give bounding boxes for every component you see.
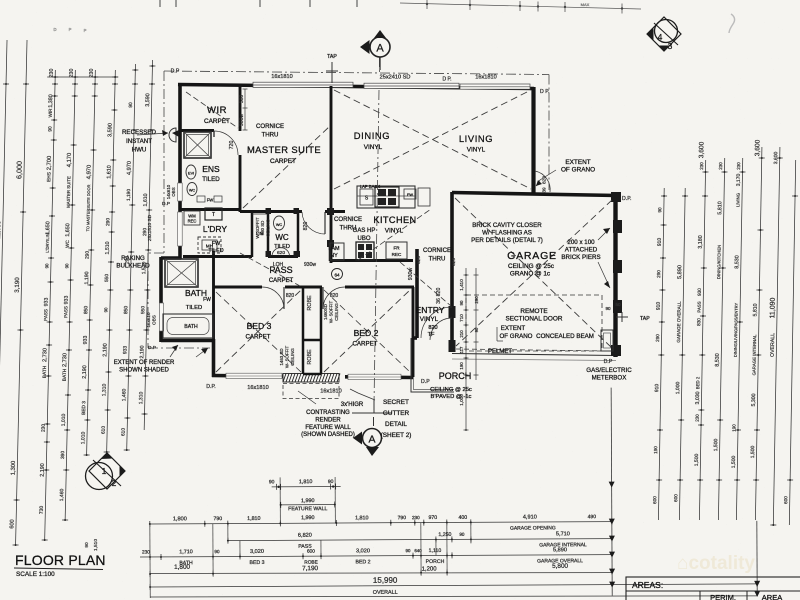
svg-text:CEILING @ 25c: CEILING @ 25c [508,263,555,270]
svg-text:B'PAVED @ -1c: B'PAVED @ -1c [431,394,472,400]
svg-text:W/ FLASHING AS: W/ FLASHING AS [482,230,532,237]
svg-text:710: 710 [459,314,464,322]
svg-text:EHS: EHS [46,172,52,182]
svg-text:FW: FW [207,198,214,203]
svg-text:FEATURE WALL: FEATURE WALL [305,425,351,431]
svg-text:VINYL: VINYL [420,316,439,323]
svg-text:230: 230 [412,515,420,520]
svg-text:600: 600 [673,494,678,502]
svg-text:1,200: 1,200 [422,566,438,572]
svg-text:P: P [84,28,87,33]
svg-text:THRU: THRU [262,132,279,139]
svg-text:7,190: 7,190 [302,565,318,572]
svg-text:REC: REC [392,252,402,257]
svg-text:RENDER: RENDER [315,417,341,423]
svg-text:600: 600 [307,549,315,555]
svg-text:933: 933 [122,346,128,355]
svg-text:MASTER SUITE: MASTER SUITE [66,176,72,208]
svg-text:90: 90 [406,548,411,553]
svg-text:BED 3: BED 3 [250,560,265,566]
svg-text:16x1810: 16x1810 [271,74,292,80]
svg-text:850: 850 [83,306,89,315]
svg-text:GRANO @ 1c: GRANO @ 1c [510,271,551,278]
svg-text:D.P: D.P [171,69,180,75]
svg-text:820: 820 [330,293,339,299]
svg-text:OF GRANO: OF GRANO [499,333,532,340]
svg-text:TAP: TAP [327,54,337,60]
svg-text:CONCEALED BEAM: CONCEALED BEAM [536,333,594,340]
svg-text:GAS HP: GAS HP [353,228,376,234]
svg-text:CEILING: CEILING [290,348,295,366]
svg-text:6,820: 6,820 [298,533,312,539]
svg-text:1,650: 1,650 [65,223,71,236]
svg-text:⌂cotality: ⌂cotality [677,553,755,574]
svg-text:VINYL: VINYL [467,147,486,154]
svg-text:25x2410 SD: 25x2410 SD [380,75,411,81]
svg-text:1,500: 1,500 [713,439,719,452]
svg-text:5,890: 5,890 [553,547,567,553]
svg-text:PASS: PASS [697,301,702,312]
svg-text:720: 720 [229,141,235,150]
svg-text:METERBOX: METERBOX [592,375,627,382]
svg-text:3,180: 3,180 [698,235,704,248]
svg-text:610: 610 [101,426,107,434]
svg-text:1,460: 1,460 [59,489,65,502]
svg-text:BED 3: BED 3 [81,401,87,415]
svg-text:1,310: 1,310 [138,392,144,405]
svg-text:ENS: ENS [202,164,220,174]
svg-text:TILED: TILED [208,248,223,254]
svg-text:1,510: 1,510 [141,262,147,275]
svg-text:PORCH: PORCH [426,559,445,565]
svg-text:230: 230 [69,69,75,78]
svg-text:1,110: 1,110 [429,548,442,554]
svg-text:LIVING: LIVING [459,133,493,144]
svg-text:820: 820 [436,288,442,297]
svg-text:2,700: 2,700 [47,156,53,171]
svg-text:WC: WC [276,223,283,227]
svg-text:BRICK PIERS: BRICK PIERS [561,254,600,261]
svg-text:TILED: TILED [274,244,290,250]
svg-text:NY: NY [330,253,338,259]
svg-text:BED 2: BED 2 [356,559,371,565]
svg-text:4,910: 4,910 [523,514,537,520]
svg-text:GAS/ELECTRIC: GAS/ELECTRIC [586,367,632,374]
svg-text:90: 90 [459,300,464,305]
svg-text:A: A [376,43,384,55]
svg-text:900w: 900w [239,114,245,126]
svg-text:L'DRY: L'DRY [203,224,227,234]
svg-text:230: 230 [49,69,55,78]
svg-text:BATH: BATH [184,324,198,330]
svg-text:230: 230 [699,162,704,170]
svg-text:830: 830 [696,318,701,326]
svg-text:EXTENT: EXTENT [565,159,590,166]
svg-text:PERIM.: PERIM. [710,593,736,600]
svg-text:820: 820 [428,325,437,331]
svg-text:WC: WC [65,239,70,247]
svg-text:BED 2: BED 2 [354,328,379,338]
svg-text:90: 90 [44,263,49,268]
svg-text:D.P: D.P [421,379,430,385]
svg-text:TAP: TAP [640,316,650,322]
svg-text:PELMET: PELMET [488,349,512,355]
svg-text:1,710: 1,710 [179,549,193,555]
svg-text:ROBE: ROBE [307,349,313,365]
svg-text:190: 190 [731,424,736,432]
svg-text:4: 4 [658,32,663,42]
svg-text:WIR: WIR [207,105,227,116]
svg-text:PER DETAILS (DETAIL 7): PER DETAILS (DETAIL 7) [471,237,543,244]
svg-text:2,730: 2,730 [62,353,68,367]
svg-text:1,510: 1,510 [105,241,111,254]
svg-text:36: 36 [436,298,442,304]
svg-text:A: A [368,434,375,446]
svg-text:3,600: 3,600 [754,139,761,156]
svg-text:3,030: 3,030 [695,391,701,404]
svg-text:1,460: 1,460 [121,389,127,402]
svg-text:CARPET: CARPET [204,118,230,125]
svg-text:MASTER SUITE: MASTER SUITE [247,144,321,155]
svg-text:2,190: 2,190 [139,345,145,358]
svg-text:490: 490 [588,514,597,520]
svg-text:190: 190 [653,446,658,454]
svg-text:90: 90 [84,542,90,548]
svg-text:1460SD: 1460SD [323,304,328,320]
svg-text:610: 610 [121,428,127,436]
svg-text:230: 230 [695,414,700,422]
svg-text:PASS: PASS [43,309,48,321]
svg-text:ROBE: ROBE [307,295,313,311]
svg-text:620: 620 [451,258,457,266]
svg-text:W- SOFFIT: W- SOFFIT [285,346,290,369]
svg-text:290: 290 [474,296,479,304]
svg-text:3,600: 3,600 [773,152,779,165]
svg-text:EXTENT OF RENDER: EXTENT OF RENDER [114,360,175,366]
svg-text:CEILING: CEILING [334,303,339,321]
svg-text:1,010: 1,010 [80,432,86,445]
svg-text:D: D [53,27,56,32]
svg-text:DINING: DINING [354,130,390,141]
svg-text:5,800: 5,800 [552,563,568,570]
svg-text:230: 230 [89,69,95,78]
svg-text:D.P.: D.P. [206,384,215,390]
svg-text:1,610: 1,610 [143,193,149,206]
svg-text:5,710: 5,710 [556,531,570,537]
svg-text:5,300: 5,300 [751,393,757,406]
svg-text:3,190: 3,190 [14,277,21,293]
svg-text:1,000: 1,000 [459,394,464,406]
svg-text:PASS: PASS [269,265,292,275]
svg-text:64: 64 [334,273,340,278]
svg-text:3,170: 3,170 [736,174,742,187]
svg-text:FW: FW [203,297,211,303]
svg-text:1,650: 1,650 [45,221,51,234]
svg-text:1,250: 1,250 [438,532,451,538]
svg-text:90: 90 [657,207,662,213]
svg-text:2,190: 2,190 [102,343,108,356]
svg-text:FEATURE WALL: FEATURE WALL [288,506,327,512]
svg-text:TO MASTERSUITE DOOR: TO MASTERSUITE DOOR [85,184,91,231]
svg-text:790: 790 [213,516,222,522]
svg-text:BATH: BATH [42,365,48,378]
svg-text:REMOTE: REMOTE [520,308,547,315]
svg-text:EVl: EVl [188,172,194,176]
svg-text:DETAIL: DETAIL [385,421,407,428]
svg-text:D P.: D P. [540,89,549,95]
svg-text:1,010: 1,010 [61,414,67,427]
svg-text:580: 580 [239,95,245,104]
svg-text:BED 2: BED 2 [695,376,700,389]
svg-text:(SHEET 2): (SHEET 2) [381,432,412,439]
svg-text:SHOWN SHADED: SHOWN SHADED [119,368,169,374]
svg-text:600: 600 [652,496,657,504]
svg-text:BRICK CAVITY CLOSER: BRICK CAVITY CLOSER [472,222,542,229]
svg-text:8,530: 8,530 [734,255,740,268]
svg-text:AREAS:: AREAS: [632,580,663,590]
svg-text:OBS: OBS [171,187,176,196]
svg-text:5,890: 5,890 [677,265,683,279]
svg-text:90: 90 [103,307,108,312]
svg-text:1,810: 1,810 [299,479,313,485]
svg-text:16x1810: 16x1810 [320,389,341,395]
svg-text:230: 230 [41,424,47,432]
svg-text:1,500: 1,500 [731,456,737,469]
svg-text:1,810: 1,810 [247,516,261,522]
svg-text:930: 930 [697,288,702,296]
svg-text:3,020: 3,020 [356,548,370,554]
svg-text:1,990: 1,990 [301,515,315,521]
svg-text:16x1810: 16x1810 [475,75,496,81]
svg-text:OBS: OBS [152,315,157,325]
svg-text:2,730: 2,730 [42,348,48,362]
svg-text:CARPET: CARPET [270,158,296,165]
svg-text:820: 820 [286,293,295,299]
svg-text:230: 230 [736,162,741,170]
svg-text:CARPET: CARPET [269,278,294,284]
svg-text:DINING/KITCHEN: DINING/KITCHEN [716,245,722,279]
svg-text:790: 790 [398,515,407,521]
svg-text:230: 230 [142,549,150,555]
svg-text:90: 90 [459,532,465,537]
svg-text:4,170: 4,170 [67,153,73,168]
svg-text:ATTACHED: ATTACHED [565,247,598,254]
svg-text:550: 550 [104,274,110,282]
svg-text:3,020: 3,020 [250,549,264,555]
svg-text:1,810: 1,810 [355,515,369,521]
svg-text:210: 210 [459,330,464,338]
svg-text:FR: FR [393,246,400,251]
svg-text:THRU: THRU [429,256,446,263]
svg-text:290: 290 [85,251,91,259]
svg-text:1: 1 [102,466,107,476]
svg-text:EXTENT: EXTENT [501,325,526,332]
svg-text:3,590: 3,590 [145,93,151,106]
svg-text:910: 910 [654,384,660,393]
svg-text:200 x 100: 200 x 100 [567,239,595,246]
svg-text:620: 620 [416,256,422,264]
svg-text:930w: 930w [304,262,316,268]
svg-text:3,600: 3,600 [698,141,705,158]
svg-text:GARAGE: GARAGE [507,250,557,262]
svg-text:L'DRYILIN: L'DRYILIN [45,233,50,253]
svg-text:1,190: 1,190 [84,271,90,284]
svg-text:GARAGE OPENING: GARAGE OPENING [510,525,556,531]
svg-text:15,990: 15,990 [373,576,398,585]
svg-text:930w: 930w [408,268,414,281]
svg-text:LIVING: LIVING [735,192,740,207]
svg-text:CEILING: CEILING [266,219,271,237]
svg-text:290: 290 [655,334,660,342]
svg-text:620: 620 [277,250,285,256]
svg-text:190: 190 [459,362,464,370]
svg-text:290: 290 [656,270,661,278]
svg-text:D P.: D P. [442,77,451,83]
svg-text:290: 290 [124,256,130,264]
svg-text:SCALE 1:100: SCALE 1:100 [16,571,55,578]
svg-text:PASS: PASS [63,306,68,318]
svg-text:933: 933 [83,336,89,345]
svg-text:970: 970 [428,515,437,521]
svg-text:25x1510 SD: 25x1510 SD [147,214,153,241]
svg-text:SECRET: SECRET [383,399,409,406]
svg-text:VINYL: VINYL [364,144,383,151]
svg-text:SECTIONAL DOOR: SECTIONAL DOOR [506,316,563,323]
svg-text:3,590: 3,590 [107,123,113,137]
svg-text:REC: REC [188,219,197,224]
svg-text:820: 820 [303,222,309,231]
svg-text:1,410: 1,410 [459,279,464,291]
svg-text:90: 90 [214,549,220,554]
svg-text:CORNICE: CORNICE [423,247,451,254]
svg-text:ENTRY: ENTRY [416,305,445,315]
svg-text:290: 290 [142,228,148,236]
svg-text:39: 39 [542,187,548,193]
svg-text:930 SD: 930 SD [260,221,265,236]
svg-text:BATH: BATH [62,368,68,381]
svg-text:1,300: 1,300 [11,461,17,476]
svg-text:2: 2 [112,478,117,488]
svg-text:D.P: D.P [148,345,156,351]
svg-text:WC: WC [189,189,196,193]
svg-text:W-SOFFIT: W-SOFFIT [255,217,260,238]
svg-text:1,310: 1,310 [101,384,107,397]
svg-text:GARAGE OVERALL: GARAGE OVERALL [676,301,682,343]
svg-text:D.P: D.P [604,359,613,365]
svg-text:3x'HIGR: 3x'HIGR [341,402,364,408]
svg-text:400: 400 [458,515,467,521]
svg-text:CORNICE: CORNICE [256,123,284,130]
svg-text:CARPET: CARPET [352,341,377,348]
svg-text:KITCHEN: KITCHEN [373,215,416,225]
svg-text:90: 90 [605,306,611,311]
svg-text:90: 90 [269,479,275,485]
svg-text:CONTRASTING: CONTRASTING [306,410,350,416]
svg-text:600: 600 [9,519,15,528]
svg-text:2,190: 2,190 [82,365,88,378]
svg-text:850: 850 [123,306,129,315]
svg-text:50: 50 [615,302,621,307]
svg-text:8,530: 8,530 [715,353,721,366]
svg-text:1,610: 1,610 [106,165,112,178]
svg-text:117: 117 [459,346,464,353]
svg-text:1,800: 1,800 [174,564,190,571]
svg-text:AREA: AREA [762,593,782,600]
svg-text:WIR: WIR [48,108,53,118]
svg-text:FW: FW [407,193,413,197]
svg-text:TILED: TILED [186,305,202,311]
svg-text:P: P [69,27,72,32]
svg-text:90: 90 [64,263,69,268]
svg-text:1463 SD: 1463 SD [279,348,284,365]
svg-text:90: 90 [328,479,334,485]
svg-text:600: 600 [783,496,788,504]
svg-text:230: 230 [718,162,723,170]
svg-text:TF: TF [428,332,435,338]
svg-text:1,500: 1,500 [694,454,700,467]
svg-text:MAX: MAX [581,2,590,7]
svg-text:290: 290 [105,218,111,226]
svg-text:VINYL: VINYL [385,228,404,235]
svg-text:390: 390 [60,451,66,459]
svg-text:D.P: D.P [162,201,170,207]
svg-text:WC: WC [275,233,289,242]
svg-text:6,000: 6,000 [14,161,23,179]
svg-text:1,000: 1,000 [675,382,681,395]
svg-text:1,800: 1,800 [173,516,187,522]
svg-text:5,810: 5,810 [717,201,723,214]
svg-text:933: 933 [43,298,49,307]
svg-text:GARAGE INTERNAL: GARAGE INTERNAL [751,334,757,375]
svg-text:CARPET: CARPET [245,334,270,341]
svg-text:90: 90 [47,126,53,132]
svg-text:1,380: 1,380 [48,94,54,107]
svg-text:DINING/LIVING/PASS/ENTRY: DINING/LIVING/PASS/ENTRY [733,303,739,358]
svg-text:1,510: 1,510 [93,539,99,551]
svg-text:90: 90 [128,102,134,108]
svg-text:INSTANT: INSTANT [126,138,152,145]
svg-text:BED 3: BED 3 [247,321,272,331]
svg-text:910: 910 [657,238,663,247]
svg-text:FLOOR PLAN: FLOOR PLAN [15,552,106,568]
svg-text:550: 550 [140,306,146,314]
svg-text:TILED: TILED [202,176,220,183]
svg-text:1,190: 1,190 [126,189,132,201]
svg-text:LAM: LAM [328,246,340,252]
svg-text:730: 730 [39,506,45,515]
svg-text:UBO: UBO [357,236,370,242]
svg-text:1,500: 1,500 [750,446,756,459]
svg-text:4,970: 4,970 [126,161,132,175]
svg-text:CORNICE: CORNICE [334,216,362,223]
svg-text:W- SOFFIT: W- SOFFIT [329,301,334,324]
svg-text:11,090: 11,090 [769,297,776,318]
svg-text:D.P.: D.P. [622,196,631,202]
svg-text:PORCH: PORCH [439,371,472,381]
svg-text:OVERALL: OVERALL [770,333,776,357]
svg-text:1,990: 1,990 [301,498,315,504]
svg-text:90: 90 [474,327,479,332]
svg-text:GUTTER: GUTTER [383,410,410,417]
svg-text:5,810: 5,810 [752,303,758,316]
svg-text:T: T [212,212,215,218]
svg-text:910: 910 [656,302,662,311]
svg-text:4,970: 4,970 [86,165,92,180]
svg-text:OF GRANO: OF GRANO [561,167,595,174]
svg-text:933: 933 [64,296,70,305]
svg-text:FW: FW [212,241,221,247]
svg-text:2,190: 2,190 [40,463,46,476]
